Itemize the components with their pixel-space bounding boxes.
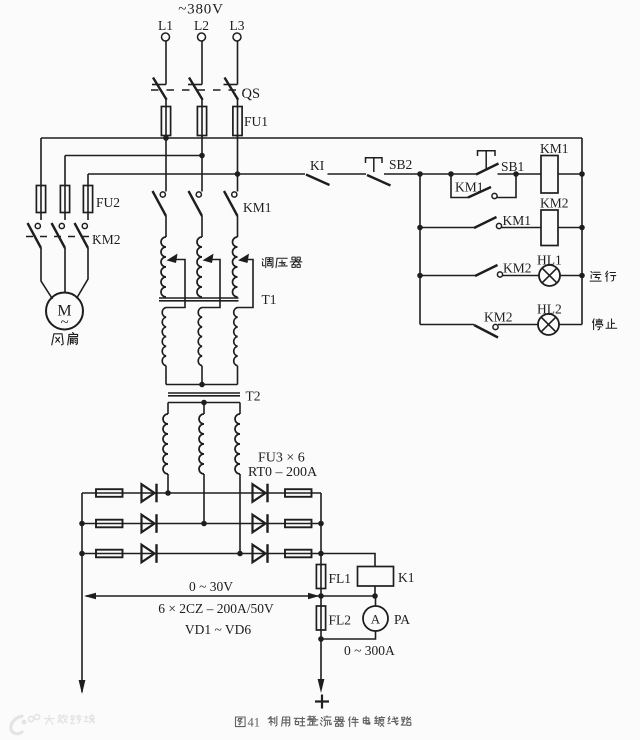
junction HL1 left: [417, 273, 423, 279]
right rail lower: [320, 639, 322, 681]
junction control left: [417, 171, 423, 177]
ammeter PA: [363, 606, 388, 631]
T1 wiper arrow 2: [202, 254, 220, 308]
label KM2 coil: [540, 196, 569, 211]
svg-text:KI: KI: [310, 158, 325, 173]
terminal L2: [198, 33, 206, 41]
label SB1: [501, 159, 524, 174]
T2 core: [168, 393, 240, 396]
coil KM2: [541, 210, 558, 246]
label VD1-VD6: [185, 622, 252, 637]
switch QS pole 2: [188, 78, 203, 107]
coil KM1: [541, 156, 558, 194]
left rail arrow: [79, 680, 86, 694]
svg-text:FL2: FL2: [329, 613, 352, 628]
contact KM2 NC: [474, 324, 498, 337]
button SB1: [476, 151, 499, 175]
label KI: [310, 158, 325, 173]
svg-text:HL1: HL1: [537, 253, 562, 268]
svg-text:~: ~: [60, 315, 68, 331]
fuse FU3 row 1 right: [285, 489, 312, 497]
svg-text:6 × 2CZ – 200A/50V: 6 × 2CZ – 200A/50V: [158, 601, 274, 616]
fuse FU1 pole 2: [197, 106, 206, 138]
fuse FL2: [316, 596, 325, 639]
KM2 linkage dashed: [26, 236, 97, 238]
junction L1 bus: [163, 135, 169, 141]
label HL2: [537, 302, 562, 317]
T2 secondary coil 2: [199, 403, 204, 524]
net label L2: [194, 18, 209, 33]
junction L2 branch: [199, 153, 205, 159]
T2 secondary head: [168, 400, 240, 406]
fuse FU3 row 2 right: [285, 520, 312, 528]
output arrow plus: [318, 679, 325, 693]
wire L2 drop: [201, 41, 203, 84]
junction L3 control: [235, 171, 241, 177]
label PA: [394, 612, 410, 627]
svg-text:KM2: KM2: [503, 261, 532, 276]
label KM2 contacts: [92, 232, 121, 247]
label KM1 NO: [503, 213, 532, 228]
left rail control: [419, 174, 421, 325]
label FU1: [244, 114, 268, 129]
svg-text:KM1: KM1: [503, 213, 532, 228]
fuse FU1 pole 1: [161, 106, 170, 138]
T1 coil phase 2: [197, 216, 202, 297]
svg-text:KM1: KM1: [243, 200, 272, 215]
lamp HL1: [539, 265, 560, 286]
svg-text:KM2: KM2: [540, 196, 569, 211]
T1 wiper arrow 1: [166, 254, 185, 308]
wire L3 to KM1: [237, 135, 239, 192]
svg-text:L1: L1: [158, 18, 173, 33]
wire control row: [88, 173, 582, 175]
wire K1 bottom: [374, 586, 376, 596]
net label L3: [230, 18, 245, 33]
terminal L1: [162, 33, 170, 41]
svg-text:FU1: FU1: [244, 114, 268, 129]
svg-text:SB2: SB2: [389, 157, 412, 172]
svg-text:KM1: KM1: [455, 180, 484, 195]
contact KM2 pole 1: [28, 223, 42, 249]
fuse FL1: [316, 565, 325, 597]
left rail: [79, 493, 85, 692]
fuse FU3 row 3 left: [96, 550, 123, 558]
label SB2: [389, 157, 412, 172]
svg-text:VD1 ~ VD6: VD1 ~ VD6: [185, 622, 252, 637]
terminal L3: [233, 33, 241, 41]
label KM2 NC: [484, 310, 513, 325]
wire HL1 row: [420, 275, 582, 277]
T1 coil phase 1: [161, 216, 166, 297]
svg-text:FU3 × 6: FU3 × 6: [258, 451, 305, 466]
wire motor phase2: [64, 248, 66, 293]
label 0-30V: [189, 579, 233, 594]
wire rectifier row 1: [82, 492, 321, 494]
contact KM1 aux self-hold: [451, 174, 516, 199]
svg-text:HL2: HL2: [537, 302, 562, 317]
wire L3 drop: [237, 41, 239, 84]
contact KM2 NO: [475, 265, 503, 277]
label FL1: [329, 571, 352, 586]
fuse FU2 pole 3: [83, 186, 92, 221]
relay coil K1: [358, 567, 394, 587]
label RT0-200A: [248, 465, 318, 480]
diode VD4: [253, 484, 268, 503]
svg-text:KM1: KM1: [540, 141, 569, 156]
diode VD2: [142, 514, 157, 533]
relay K1 branch: [321, 554, 375, 567]
svg-text:QS: QS: [242, 86, 261, 102]
svg-text:0 ~ 300A: 0 ~ 300A: [344, 643, 395, 658]
svg-text:FL1: FL1: [329, 571, 352, 586]
svg-text:RT0 – 200A: RT0 – 200A: [248, 465, 318, 480]
diode VD5: [253, 514, 268, 533]
label KM1 aux: [455, 180, 484, 195]
switch QS pole 3: [224, 78, 239, 107]
lamp HL2: [538, 314, 559, 335]
wire drop phase2: [64, 156, 66, 186]
diode VD3: [142, 544, 157, 563]
ammeter PA branch: [375, 596, 377, 606]
QS linkage dashed: [151, 89, 245, 91]
contact KM1 pole 1: [153, 191, 167, 216]
right rail upper: [318, 493, 324, 565]
label FU3x6: [258, 451, 305, 466]
svg-text:~380V: ~380V: [178, 2, 223, 18]
caption figure: [236, 716, 411, 730]
svg-text:A: A: [371, 612, 381, 627]
label K1: [398, 570, 415, 585]
contact KM1 pole 3: [224, 191, 238, 216]
T2 secondary coil 1: [163, 403, 168, 494]
label 6x2CZ: [158, 601, 274, 616]
watermark text: [45, 714, 95, 724]
svg-text:K1: K1: [398, 570, 415, 585]
net label ~380V: [178, 2, 223, 18]
label T1: [262, 292, 277, 307]
wire rectifier row 3: [82, 553, 321, 555]
diode VD6: [253, 544, 268, 563]
junction KM2 row left: [417, 225, 423, 231]
dimension line 0-30V: [84, 593, 321, 599]
label KM1 coil: [540, 141, 569, 156]
contact KM2 pole 2: [52, 223, 66, 249]
svg-text:0 ~ 30V: 0 ~ 30V: [189, 579, 233, 594]
fuse FU2 pole 2: [60, 186, 69, 221]
wire branch L2: [65, 155, 202, 157]
junction SB1 right: [513, 171, 519, 177]
T2 primary coil 2: [198, 308, 202, 385]
fuse FU3 row 1 left: [96, 489, 123, 497]
T2 primary coil 1: [162, 308, 166, 385]
label running: [590, 271, 616, 281]
svg-text:L3: L3: [230, 18, 245, 33]
svg-text:SB1: SB1: [501, 159, 524, 174]
contact KI: [306, 175, 330, 186]
svg-text:T1: T1: [262, 292, 277, 307]
label KM1 contacts: [243, 200, 272, 215]
junction row 2: [201, 521, 207, 527]
wire drop phase1: [40, 138, 42, 186]
fuse FU1 pole 3: [233, 106, 242, 138]
T2 secondary coil 3: [235, 403, 240, 554]
right rail control: [581, 138, 583, 325]
wire motor phase1: [41, 248, 53, 299]
wire L2 to KM1: [201, 135, 203, 192]
label fan: [52, 333, 78, 345]
label HL1: [537, 253, 562, 268]
junction row 1: [165, 490, 171, 496]
label FL2: [329, 613, 352, 628]
wire HL2 row: [420, 324, 582, 326]
plus terminal: [315, 695, 329, 709]
wire bus L1-to-control: [41, 137, 582, 139]
junction SB1 left: [448, 171, 454, 177]
fuse FU3 row 2 left: [96, 520, 123, 528]
svg-text:FU2: FU2: [96, 195, 120, 210]
net label L1: [158, 18, 173, 33]
label QS: [242, 86, 261, 102]
T1 wiper arrow 3: [238, 254, 254, 308]
svg-text:KM2: KM2: [92, 232, 121, 247]
wire L1 to KM1: [165, 138, 167, 192]
label FU2: [96, 195, 120, 210]
wire PA bottom: [318, 631, 375, 642]
junction row 3: [237, 551, 243, 557]
contact KM1 pole 2: [189, 191, 203, 216]
label 0-300A: [344, 643, 395, 658]
contact KM2 pole 3: [75, 223, 89, 249]
watermark logo: [11, 714, 40, 733]
junction KM1 right: [579, 171, 585, 177]
wire KM1-NO row: [420, 227, 582, 229]
wire drop phase3: [87, 174, 89, 186]
diode VD1: [142, 484, 157, 503]
fuse FU2 pole 1: [36, 186, 45, 221]
T2 primary star: [166, 382, 238, 388]
label regulator: [262, 257, 302, 267]
label stop: [592, 319, 616, 330]
svg-text:KM2: KM2: [484, 310, 513, 325]
contact KM1 NO: [474, 217, 502, 229]
junction HL1 right: [579, 273, 585, 279]
svg-text:L2: L2: [194, 18, 209, 33]
wire motor phase3: [77, 248, 89, 299]
node line: [318, 593, 378, 599]
T1 core: [159, 298, 239, 301]
svg-text:PA: PA: [394, 612, 410, 627]
label KM2 NO: [503, 261, 532, 276]
T1 coil phase 3: [233, 216, 238, 297]
junction KM2 row right: [579, 225, 585, 231]
svg-text:T2: T2: [246, 389, 261, 404]
motor M fan: [46, 293, 83, 332]
svg-text:41: 41: [248, 716, 261, 730]
T2 primary coil 3: [234, 308, 238, 385]
fuse FU3 row 3 right: [285, 550, 312, 558]
wire L1 drop: [165, 41, 167, 84]
wire rectifier row 2: [82, 523, 321, 525]
label T2: [246, 389, 261, 404]
button SB2: [366, 158, 391, 186]
switch QS pole 1: [152, 78, 167, 107]
